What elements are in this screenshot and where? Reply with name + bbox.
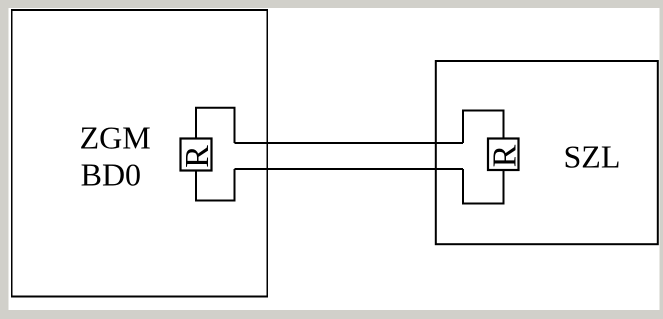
R box left — [181, 139, 212, 171]
svg-text:R: R — [179, 145, 216, 168]
block SZL (right box) — [436, 61, 658, 244]
wire top — [235, 142, 464, 144]
block ZGM BD0 (left box) — [11, 9, 268, 298]
connector shell right — [463, 111, 504, 204]
R box right — [488, 139, 519, 171]
wire bottom — [235, 168, 464, 170]
svg-text:SZL: SZL — [564, 139, 621, 175]
svg-text:BD0: BD0 — [81, 156, 141, 192]
svg-text:ZGM: ZGM — [80, 120, 151, 156]
svg-text:R: R — [487, 144, 524, 167]
connector shell left — [196, 108, 235, 201]
